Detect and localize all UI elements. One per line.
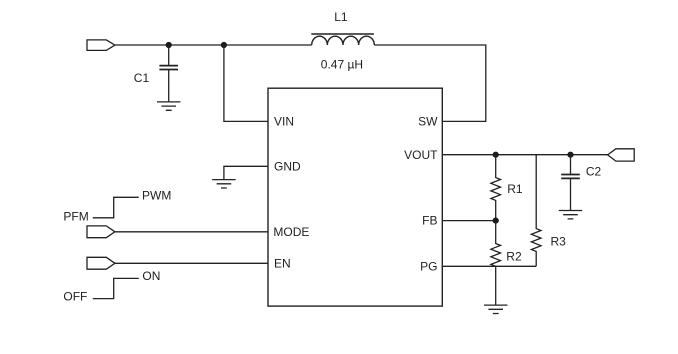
capacitor C1 [159,45,178,101]
svg-text:GND: GND [274,160,301,174]
svg-text:ON: ON [142,269,160,283]
wire PWM/PFM bracket [93,197,139,218]
inductor L1 [311,34,374,45]
svg-text:C1: C1 [134,71,150,85]
capacitor C2 [561,155,580,210]
resistor R1 [491,155,501,221]
svg-text:SW: SW [418,115,438,129]
ground (C1) [157,102,180,110]
svg-text:L1: L1 [334,10,348,24]
wire PG [442,265,536,267]
ground (R2) [484,305,507,313]
svg-text:FB: FB [422,213,437,227]
wire MODE [115,231,268,233]
resistor R3 [531,155,541,267]
svg-text:VOUT: VOUT [404,148,438,162]
svg-text:PG: PG [420,260,437,274]
junction dot C2 tap [567,152,573,158]
wire GND pin to ground [224,166,268,179]
connector tag (MODE input) [87,226,115,238]
svg-text:PWM: PWM [142,188,171,202]
svg-text:R1: R1 [507,182,523,196]
junction dot R1 tap [493,152,499,158]
svg-text:OFF: OFF [63,289,87,303]
wire VIN tap down to VIN pin [224,45,268,121]
svg-text:0.47 µH: 0.47 µH [321,57,363,71]
wire R2 to ground [495,266,497,304]
junction dot VIN tap [221,42,227,48]
wire VOUT [442,154,607,156]
junction dot C1 tap [166,42,172,48]
svg-text:PFM: PFM [63,209,88,223]
wire ON/OFF bracket [93,278,139,298]
connector tag (EN input) [87,257,115,269]
svg-text:R3: R3 [551,235,567,249]
svg-text:EN: EN [274,257,291,271]
ground (C2) [559,211,582,219]
wire inductor to SW pin [374,45,486,121]
ground (GND pin) [212,180,235,188]
connector tag (output, right) [608,149,635,161]
junction dot FB [493,218,499,224]
svg-text:VIN: VIN [274,115,294,129]
svg-text:MODE: MODE [273,225,309,239]
wire FB [442,220,495,222]
connector tag (input, left) [87,40,115,51]
svg-text:R2: R2 [506,250,522,264]
resistor R2 [491,221,501,267]
IC U1 (buck converter) [268,88,442,306]
svg-text:C2: C2 [586,164,602,178]
wire EN [115,262,268,264]
wire input to inductor [115,44,312,46]
